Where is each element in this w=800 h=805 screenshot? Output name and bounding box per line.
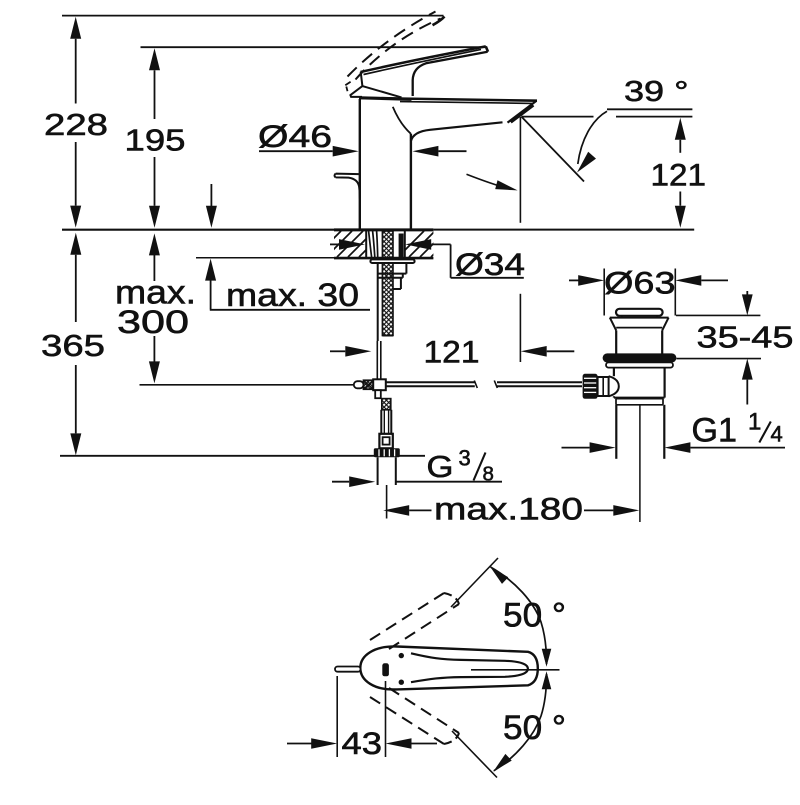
svg-text:39 °: 39 ° <box>624 76 689 108</box>
35-45 arrow up <box>742 359 753 380</box>
35-45 extension top <box>676 314 760 316</box>
fitting window <box>383 437 390 444</box>
dia63 arrow right-pointing <box>578 275 604 286</box>
supply tube right <box>395 457 397 485</box>
50deg upper extension line <box>451 558 498 607</box>
svg-text:3: 3 <box>459 446 471 471</box>
39deg ray from spout tip <box>521 117 584 182</box>
dia46 arrow left-pointing <box>412 146 438 157</box>
lever top view inner outline <box>411 653 528 682</box>
pull rod bottom line left part <box>386 385 475 387</box>
swivel arc arrowhead <box>495 180 517 190</box>
G3/8 underline <box>396 481 502 483</box>
svg-text:G: G <box>427 450 454 484</box>
hose outer line below nut <box>377 264 379 341</box>
dia46 line left <box>259 150 333 152</box>
spout top inner line <box>400 102 532 104</box>
extension line deck underside <box>196 257 334 259</box>
121-bottom line left <box>330 350 345 352</box>
washer under deck <box>370 259 414 263</box>
dia63 arrow left-pointing <box>675 275 701 286</box>
G3/8 tail left <box>332 481 349 483</box>
50deg lower extension line <box>452 731 497 778</box>
reference line bottom of supply pipe (365 level) <box>60 455 425 457</box>
hose outer left <box>380 410 382 434</box>
lever screw dot upper <box>399 653 404 658</box>
G1-1/4 tail right <box>690 447 785 449</box>
max180 arrow left-pointing <box>383 505 409 516</box>
pull rod top line left part <box>386 381 475 383</box>
waste cone <box>610 318 669 331</box>
G3/8 fitting block <box>379 434 392 449</box>
dashed lever nose marks <box>345 82 350 91</box>
extension line at pull-rod level <box>140 384 355 386</box>
arrow down max30 to deck top <box>206 206 217 228</box>
35-45 lower shaft <box>746 380 748 405</box>
body-spout crease curve <box>393 107 411 134</box>
lever bottom edge <box>362 86 401 97</box>
pull rod right line <box>380 341 382 380</box>
dashed lever-down edge right <box>389 688 459 733</box>
svg-text:50 °: 50 ° <box>503 597 566 635</box>
lever side tab <box>335 667 361 672</box>
stud bottom edge <box>382 335 393 337</box>
121 top shaft upper <box>679 140 681 153</box>
supply tube left <box>377 457 379 485</box>
svg-text:121: 121 <box>424 334 480 370</box>
39deg underline <box>607 108 692 110</box>
max30 baseline <box>210 309 370 311</box>
dimension 195 vertical <box>154 70 156 206</box>
G1-1/4 arrow right-pointing <box>590 442 616 453</box>
svg-text:Ø34: Ø34 <box>455 246 525 282</box>
svg-text:max. 30: max. 30 <box>226 277 359 313</box>
drain centerline <box>639 405 641 522</box>
arrow up 365 <box>70 233 81 255</box>
shank left edge <box>365 231 367 257</box>
dia63 tail left <box>569 279 579 281</box>
arrow up 195 <box>149 48 160 70</box>
hose braid band <box>382 399 391 410</box>
43 arrow left-pointing <box>386 738 412 749</box>
50deg upper arc <box>491 567 547 664</box>
arrow down 121 spout height <box>675 206 686 228</box>
dashed lever-down end cap <box>444 733 459 744</box>
spout outlet level line left part <box>521 116 593 118</box>
svg-text:121: 121 <box>651 157 707 193</box>
max180 arrow right-pointing <box>613 505 639 516</box>
dashed lever upper edge <box>348 12 436 77</box>
coupler screw block <box>364 380 374 389</box>
rod break marks <box>474 381 497 389</box>
dashed lever tip cap <box>433 17 445 26</box>
port connector divider <box>602 378 604 396</box>
35-45 arrow down <box>742 294 753 315</box>
tab below coupler <box>375 390 381 398</box>
svg-text:195: 195 <box>125 123 186 158</box>
mounting nut steps <box>378 264 407 289</box>
lever nose front <box>350 72 362 97</box>
dia46 arrow right-pointing <box>333 146 359 157</box>
cap rim tick left <box>621 316 623 318</box>
rod end cap <box>354 381 364 388</box>
hose funnel line 3 <box>377 231 378 257</box>
hose inner right <box>388 410 390 434</box>
waste flange seal (black) <box>603 353 677 362</box>
coupler main block <box>373 379 386 390</box>
svg-text:G1: G1 <box>692 412 738 450</box>
deck top line right thin <box>433 229 694 231</box>
dia63 extension right <box>674 269 676 316</box>
knurled knob <box>583 374 598 399</box>
arrow down 365 <box>70 433 81 455</box>
shank wall section bar <box>399 234 404 258</box>
waste body bottom <box>614 397 665 399</box>
43 extension line right <box>385 681 387 757</box>
dia34 leader horizontal <box>431 243 450 245</box>
coupler screw cross <box>364 380 374 389</box>
deck top line thick (cut section) <box>334 228 433 231</box>
spout underside <box>411 122 503 141</box>
dashed lever-up end cap <box>444 593 459 604</box>
waste lower body left lower <box>613 396 615 397</box>
hose outer right <box>390 410 392 434</box>
aerator end face <box>508 101 537 123</box>
svg-text:35-45: 35-45 <box>697 321 794 355</box>
dia34 underline <box>451 277 524 279</box>
G3/8 hex nut dark <box>374 448 400 457</box>
waste flange lip <box>606 362 673 367</box>
deck hatching right band <box>398 231 479 257</box>
deck top line left thin <box>62 229 334 231</box>
svg-text:228: 228 <box>44 107 108 142</box>
max30 upper shaft <box>210 184 212 206</box>
121-bottom arrow left-pointing <box>521 346 547 357</box>
waste lower body right <box>663 368 665 398</box>
arrow up 228 <box>70 17 81 39</box>
svg-text:max.180: max.180 <box>434 491 583 527</box>
50deg upper arc arrowhead outer <box>490 566 509 584</box>
dia34 arrow left-pointing <box>405 239 431 250</box>
arrow up 121 spout height <box>675 118 686 140</box>
G1-1/4 arrow left-pointing <box>664 442 690 453</box>
svg-text:1: 1 <box>748 409 761 436</box>
dashed lever-up edge left <box>370 593 444 640</box>
dashed lever lower edge <box>356 19 441 80</box>
max180 line right <box>584 509 613 511</box>
50deg lower arc <box>494 674 547 771</box>
50deg lower arc arrowhead outer <box>493 754 512 772</box>
extension line below spout tip lower <box>519 294 521 362</box>
hose inner left <box>383 410 385 434</box>
tailpiece left <box>615 405 617 459</box>
arrow up max300 <box>149 233 160 255</box>
lever tip end <box>486 46 488 51</box>
extension line below spout tip upper <box>519 117 521 223</box>
max180 line left <box>409 509 431 511</box>
dia34 line left <box>330 243 339 245</box>
reference line top of lever (228 level) <box>62 15 444 17</box>
svg-text:Ø63: Ø63 <box>604 265 676 301</box>
121-bottom line right <box>547 350 575 352</box>
G3/8 arrow right-pointing <box>349 476 375 487</box>
waste lower body left upper <box>613 368 615 377</box>
svg-text:Ø46: Ø46 <box>258 118 332 154</box>
lever top inner line <box>364 49 482 74</box>
dimension 228 vertical <box>75 39 77 206</box>
dimension max300 vertical <box>153 255 155 362</box>
svg-text:365: 365 <box>41 328 105 363</box>
50deg lower arc arrowhead inner <box>542 671 552 689</box>
43 extension line left <box>336 676 338 757</box>
port connector <box>598 377 609 396</box>
faucet body left edge <box>359 99 361 229</box>
dashed lever-down edge left <box>370 697 444 744</box>
dia34 arrow right-pointing <box>339 239 365 250</box>
faucet body right edge <box>410 134 412 229</box>
lever base / body top line <box>360 98 411 100</box>
121 top shaft lower <box>679 192 681 206</box>
dimension 365 vertical <box>75 255 77 434</box>
pull rod bottom line right part <box>497 385 582 387</box>
39deg arc arrowhead <box>577 152 596 173</box>
svg-text:43: 43 <box>342 725 383 761</box>
43 line left <box>287 743 312 745</box>
35-45 upper shaft <box>746 291 748 295</box>
aerator band <box>511 105 534 122</box>
35-45 extension bottom <box>676 358 761 360</box>
waste cone inner line <box>616 327 662 329</box>
G1-1/4 tail left <box>562 447 590 449</box>
hook on body left side <box>335 174 360 199</box>
arrow down 195 <box>149 206 160 228</box>
lever top view solid outline <box>360 646 538 689</box>
side port bulge <box>609 376 619 396</box>
dia34 leader vertical <box>450 244 452 277</box>
lever axis centerline <box>471 669 560 671</box>
tailpiece collar <box>616 399 663 405</box>
lever top edge <box>361 46 486 72</box>
spout top edge <box>359 98 537 101</box>
svg-text:50 °: 50 ° <box>503 709 566 747</box>
arrow down max300 <box>149 361 160 383</box>
threaded stud cross-hatched <box>382 231 393 336</box>
dia46 line right <box>438 150 466 152</box>
50deg upper arc arrowhead inner <box>542 649 552 667</box>
reference line top of solid lever (195 level) <box>141 46 487 48</box>
deck hatching left band <box>293 231 440 257</box>
lever underside and neck <box>413 52 488 96</box>
svg-text:4: 4 <box>771 422 783 447</box>
pull rod left line <box>376 341 378 380</box>
dia63 tail right <box>701 279 728 281</box>
lever logo mark <box>382 663 389 676</box>
39deg arc <box>578 111 607 164</box>
deck bottom line thick <box>334 257 433 260</box>
waste upper body right <box>661 330 663 353</box>
max30 lower shaft <box>210 280 212 309</box>
hose funnel line 1 <box>369 231 372 257</box>
arrow down 228 <box>70 206 81 228</box>
waste upper body left <box>615 330 617 353</box>
arrow up max30 to deck bottom <box>205 259 216 281</box>
43 arrow right-pointing <box>311 738 337 749</box>
cap rim tick right <box>656 316 658 318</box>
supply tube centerline <box>386 485 388 519</box>
swivel arc on body <box>467 174 512 189</box>
hose funnel line 2 <box>373 231 375 257</box>
svg-text:300: 300 <box>117 304 189 340</box>
pull rod top line right part <box>497 381 582 383</box>
shank right edge <box>404 231 406 257</box>
tailpiece right <box>663 405 665 459</box>
dia63 extension left <box>603 269 605 316</box>
dashed lever-up edge right <box>389 604 459 649</box>
waste cap disc <box>616 309 663 316</box>
G3/8 fraction slash <box>474 453 486 481</box>
121-bottom arrow right-pointing <box>345 346 371 357</box>
G1-1/4 fraction slash <box>759 422 771 443</box>
spout outlet level line right part <box>616 116 692 118</box>
43 line right <box>412 743 438 745</box>
lever screw dot lower <box>399 680 404 685</box>
